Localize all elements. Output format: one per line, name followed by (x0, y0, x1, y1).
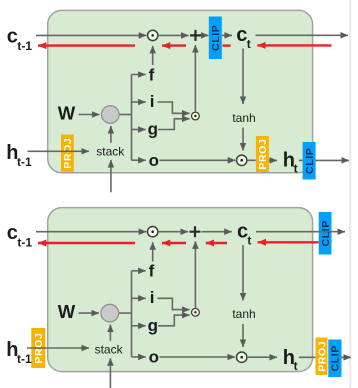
wire mul2b up to addb (194, 241, 196, 307)
add node b (190, 226, 201, 237)
cell body box 1 (48, 10, 313, 172)
red grad wire addb to mul1b (162, 242, 186, 244)
svg-text:CLIP: CLIP (210, 25, 222, 51)
svg-text:i: i (150, 92, 155, 111)
svg-text:c: c (7, 26, 18, 48)
wire mul3b to h_tb (248, 356, 277, 358)
clip box C1 (209, 17, 222, 60)
gate fan-out bracket (top) (132, 75, 146, 161)
svg-text:CLIP: CLIP (330, 345, 342, 371)
proj box P0 (left edge, h input) (31, 328, 45, 368)
elementwise mul node 3 (top) (237, 155, 247, 165)
svg-text:g: g (148, 120, 158, 139)
svg-text:c: c (7, 222, 18, 244)
label c_t-1 (bottom) (7, 222, 33, 249)
wire stack to circle (110, 126, 112, 143)
label c_t-1 (top) (7, 26, 33, 53)
red grad wire add to mul1 (162, 44, 186, 46)
svg-text:t: t (294, 162, 298, 176)
wire mul1b to addb (159, 231, 188, 233)
wire clip2 to right out (316, 159, 349, 161)
svg-text:t: t (247, 37, 251, 51)
red grad wire to c_t-1 (38, 44, 135, 46)
wire matmul circle to bracket b (119, 312, 132, 314)
wire clip3 to right out (342, 356, 352, 358)
svg-text:stack: stack (95, 343, 124, 357)
red grad wire right into c_t (257, 44, 331, 46)
svg-text:t-1: t-1 (17, 236, 32, 250)
svg-text:t-1: t-1 (17, 39, 32, 53)
elementwise mul node 3b (237, 352, 247, 362)
svg-text:o: o (149, 151, 159, 170)
svg-text:stack: stack (96, 145, 125, 159)
wire add to clip1 (202, 34, 208, 36)
wire c_t down to tanh (242, 49, 244, 105)
wire tanh to mul3 (242, 128, 244, 151)
wire W to circle b (79, 312, 100, 314)
elementwise mul node 2 (i*g) (192, 112, 200, 120)
elementwise mul node 2b (192, 308, 200, 316)
svg-text:tanh: tanh (232, 307, 255, 321)
svg-text:t-1: t-1 (17, 352, 32, 366)
clip box C2 (after h_t) (303, 142, 316, 180)
label h_t (bottom) (283, 347, 298, 373)
gate o (bottom) (149, 348, 235, 367)
label h_t (top) (283, 150, 298, 176)
label h_t-1 (top) (6, 142, 32, 169)
wire c_tb to right out through clip (256, 231, 345, 233)
elementwise mul node 1 (148, 30, 158, 40)
svg-text:CLIP: CLIP (304, 148, 316, 174)
svg-text:W: W (58, 301, 76, 322)
wire c_t to right out (256, 34, 349, 36)
wire c_t-1 to mul1 (36, 34, 146, 36)
svg-text:o: o (149, 348, 159, 367)
svg-text:f: f (149, 65, 155, 84)
matmul circle (bottom) (101, 304, 119, 322)
svg-text:PROJ: PROJ (316, 341, 328, 372)
gate i (top) (150, 92, 190, 114)
svg-text:PROJ: PROJ (62, 138, 74, 169)
wire c_t-1 to mul1b (36, 231, 146, 233)
wire clip1 to c_t (222, 34, 232, 36)
gate g (top) (148, 119, 190, 139)
wire c_tb down to tanh (242, 245, 244, 301)
wire tanh to mul3b (242, 324, 244, 347)
gate f (top) (149, 46, 155, 85)
clip box C3 (right edge) (328, 340, 341, 378)
wire h_t-1 through proj to stack (27, 347, 89, 349)
matmul circle (top) (102, 106, 120, 124)
cell body box 2 (48, 208, 313, 372)
proj box P1 (on h input) (61, 135, 74, 172)
gate fan-out bracket (bottom) (132, 271, 146, 357)
elementwise mul node 1b (148, 227, 158, 237)
label h_t-1 (bottom) (6, 339, 32, 366)
gate i (bottom) (150, 288, 190, 310)
gate g (bottom) (148, 315, 190, 335)
svg-text:W: W (58, 102, 76, 123)
wire mul3 to proj2 (248, 159, 256, 161)
wire mul1 to add (159, 34, 189, 36)
add node (190, 30, 201, 41)
wire W to circle (79, 114, 100, 116)
input arrow from below (top cell) (110, 160, 112, 192)
svg-text:tanh: tanh (232, 111, 255, 125)
input arrow from below (bottom cell) (109, 358, 111, 388)
wire h_t to clip2 (299, 159, 303, 161)
svg-text:i: i (150, 288, 155, 307)
wire h_tb to proj3 (299, 356, 316, 358)
gate o (top) (149, 151, 236, 170)
wire stack to circle b (109, 325, 111, 341)
svg-text:t: t (294, 359, 298, 373)
red grad wire c_tb to addb (206, 242, 227, 244)
wire mul2 up to add (194, 45, 196, 111)
svg-text:g: g (148, 316, 158, 335)
svg-text:PROJ: PROJ (257, 139, 269, 170)
svg-text:t: t (247, 234, 251, 248)
proj box P3 (right edge) (316, 338, 329, 376)
clip box C1b (right edge, c path) (319, 212, 332, 255)
page edge band right (349, 0, 351, 388)
red grad wire to c_t-1 b (38, 242, 135, 244)
wire h_t-1 to stack (28, 150, 90, 152)
proj box P2 (before h_t) (256, 136, 269, 172)
label c_t (bottom) (237, 221, 251, 248)
red grad wire c_t to clip1 (223, 44, 231, 46)
svg-text:f: f (149, 262, 155, 281)
wire proj2 to h_t (269, 159, 277, 161)
red grad wire clip to c_tb (258, 241, 319, 243)
svg-text:t-1: t-1 (17, 155, 32, 169)
wire addb to c_tb (202, 231, 232, 233)
gate f (bottom) (149, 242, 155, 280)
wire matmul circle to bracket (119, 114, 132, 116)
svg-text:CLIP: CLIP (320, 220, 332, 246)
label c_t (top) (236, 24, 250, 51)
